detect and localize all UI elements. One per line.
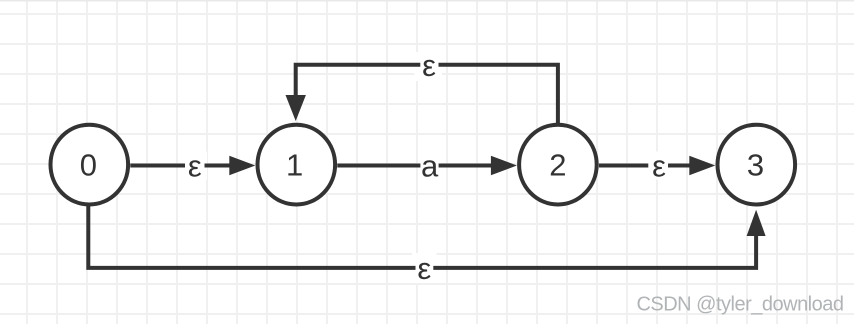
svg-text:a: a [421, 148, 439, 183]
svg-text:1: 1 [286, 148, 303, 183]
svg-text:3: 3 [747, 148, 764, 183]
svg-text:CSDN @tyler_download: CSDN @tyler_download [636, 293, 843, 315]
svg-text:ε: ε [422, 48, 436, 83]
svg-text:0: 0 [80, 148, 97, 183]
svg-text:ε: ε [188, 148, 202, 183]
svg-text:ε: ε [417, 251, 431, 286]
svg-text:ε: ε [652, 148, 666, 183]
svg-text:2: 2 [549, 148, 566, 183]
